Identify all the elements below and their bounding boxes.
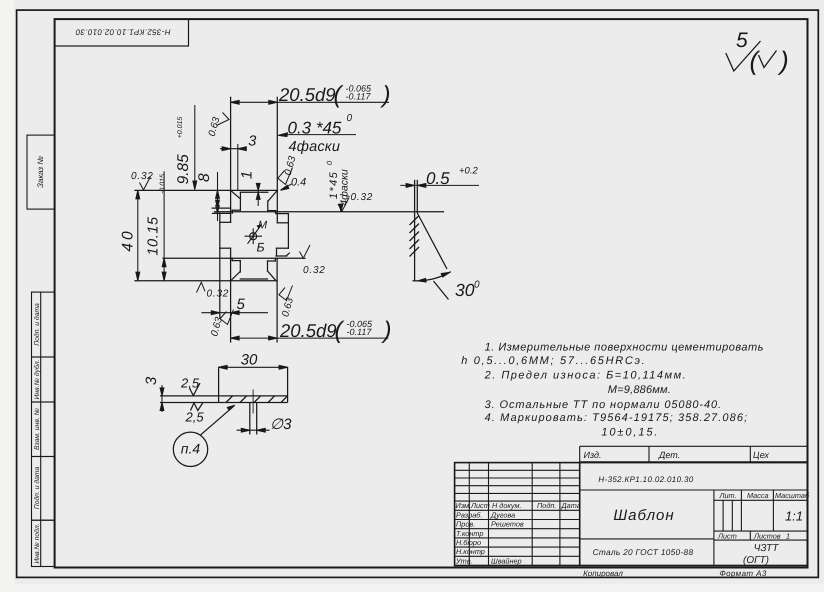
corner notch top-left <box>220 221 231 223</box>
bottom tongue right wall + ext <box>276 258 278 342</box>
svg-text:Копировал: Копировал <box>583 569 623 578</box>
svg-text:8: 8 <box>196 173 213 182</box>
svg-text:п.4: п.4 <box>181 441 201 457</box>
bottom tongue left wall + ext <box>230 258 232 342</box>
land edges <box>414 180 416 281</box>
flag 0.32 top-left <box>140 177 151 191</box>
bottom slants <box>231 272 240 280</box>
dim 3 <box>220 148 245 150</box>
svg-text:Лист: Лист <box>470 501 490 510</box>
svg-text:Н.бюро: Н.бюро <box>456 538 481 547</box>
svg-text:Н-352.КР1.10.02.010.30: Н-352.КР1.10.02.010.30 <box>75 28 170 37</box>
svg-text:4фаски: 4фаски <box>339 169 351 206</box>
svg-text:1: 1 <box>239 171 256 179</box>
svg-text:5: 5 <box>736 29 748 52</box>
flag 0.63 upper-left (rotated) <box>217 113 230 126</box>
svg-text:40: 40 <box>120 228 137 251</box>
section hatching <box>226 396 233 403</box>
svg-text:Решетов: Решетов <box>491 520 524 529</box>
svg-text:Подп. и дата: Подп. и дата <box>34 467 41 510</box>
ext line of dim 8 <box>212 207 230 209</box>
svg-text:Масса: Масса <box>747 491 769 500</box>
svg-text:-0.015: -0.015 <box>160 174 167 194</box>
svg-text:Подп.: Подп. <box>537 501 556 510</box>
svg-text:Пров.: Пров. <box>456 520 475 529</box>
angle arc <box>413 272 451 281</box>
right part <box>580 489 808 491</box>
top ledges <box>232 209 240 211</box>
svg-text:30: 30 <box>241 352 258 369</box>
svg-text:Н докум.: Н докум. <box>492 501 522 510</box>
right tongue wall + ext <box>276 97 278 223</box>
svg-text:Швайнер: Швайнер <box>491 556 522 565</box>
svg-text:+0.2: +0.2 <box>459 166 478 177</box>
svg-text:-0.117: -0.117 <box>346 91 372 101</box>
svg-text:Сталь 20 ГОСТ 1050-88: Сталь 20 ГОСТ 1050-88 <box>593 547 694 557</box>
leader 1x45 down arrow <box>340 206 342 212</box>
revision rows <box>455 469 580 471</box>
svg-text:Шаблон: Шаблон <box>613 507 674 524</box>
body top faces <box>213 212 231 214</box>
left margin: Заказ № box <box>27 135 55 209</box>
svg-text:0.3 *45: 0.3 *45 <box>288 119 342 138</box>
svg-text:20.5d9: 20.5d9 <box>279 320 337 341</box>
dim 5 <box>201 312 268 314</box>
svg-text:2,5: 2,5 <box>185 410 205 425</box>
surface line L2 <box>163 257 305 259</box>
svg-text:Инв.№ дубл.: Инв.№ дубл. <box>34 359 41 399</box>
svg-text:3. Остальные ТТ по нормали 050: 3. Остальные ТТ по нормали 05080-40. <box>485 399 722 411</box>
svg-text:Листов: Листов <box>753 532 781 541</box>
title block texts <box>584 450 770 460</box>
dim 30 <box>219 366 288 368</box>
hole axis <box>252 390 254 414</box>
svg-text:20.5d9: 20.5d9 <box>278 84 336 105</box>
30 deg leader <box>434 281 449 300</box>
bottom ledges <box>231 258 233 260</box>
svg-text:Дет.: Дет. <box>658 450 680 460</box>
svg-text:0.4: 0.4 <box>291 177 306 189</box>
svg-text:2. Предел износа: Б=10,114мм.: 2. Предел износа: Б=10,114мм. <box>484 370 688 382</box>
main title block outline <box>455 463 808 566</box>
svg-text:3: 3 <box>248 134 256 150</box>
roughness symbol top-right <box>726 41 777 71</box>
flag 0.32 on L1 <box>338 198 349 212</box>
part top face <box>135 189 278 191</box>
svg-text:10±0,15.: 10±0,15. <box>601 427 659 439</box>
svg-text:М=9,886мм.: М=9,886мм. <box>608 384 671 396</box>
svg-text:0: 0 <box>474 280 480 291</box>
corner notch bottom-left <box>220 247 231 249</box>
dim 0.5 <box>400 184 479 186</box>
surface line L1 (to detail view) <box>215 211 444 213</box>
flag 0.63 right wall (rotated) <box>278 168 293 185</box>
svg-text:+0.015: +0.015 <box>177 117 184 139</box>
flag 0.32 on L2 right <box>300 245 311 258</box>
svg-text:5: 5 <box>237 296 246 313</box>
top recess floor <box>240 191 267 193</box>
svg-text:30: 30 <box>455 280 475 300</box>
svg-text:1: 1 <box>786 532 790 541</box>
left tongue wall + ext <box>230 97 232 222</box>
svg-text:М: М <box>258 220 268 232</box>
svg-text:4. Маркировать: Т9564-19175; 3: 4. Маркировать: Т9564-19175; 358.27.086; <box>485 412 749 424</box>
hatching <box>410 216 420 226</box>
left part verticals <box>468 463 470 566</box>
svg-text:ЧЗТТ: ЧЗТТ <box>754 543 780 554</box>
svg-text:4фаски: 4фаски <box>289 139 341 155</box>
svg-text:0.32: 0.32 <box>207 289 230 300</box>
balloon <box>173 432 207 466</box>
flag 0.63 bottom wall ext <box>279 286 293 301</box>
dim 40 <box>137 190 139 280</box>
body left edge + ext down <box>219 213 221 317</box>
datum target М/Б in center <box>245 225 263 245</box>
dim 3 thickness <box>161 385 163 412</box>
roughness checks 2.5 <box>190 383 201 396</box>
dim d3 <box>237 429 270 431</box>
top inner verticals <box>239 192 241 210</box>
dim 10.15 <box>163 171 165 280</box>
bottom inner verticals <box>239 261 241 272</box>
30 deg slant face <box>417 213 447 269</box>
top-right slant <box>268 191 277 201</box>
top-left slant <box>231 191 240 199</box>
svg-text:Лит.: Лит. <box>719 491 737 500</box>
svg-text:Разраб.: Разраб. <box>456 510 482 519</box>
body right edge <box>287 214 289 249</box>
svg-text:∅3: ∅3 <box>270 416 292 433</box>
svg-text:3: 3 <box>143 376 160 385</box>
svg-text:10.15: 10.15 <box>146 216 162 256</box>
corner notch top-right <box>277 222 288 224</box>
hole ext <box>249 403 251 435</box>
svg-text:1. Измерительные поверхности ц: 1. Измерительные поверхности цементирова… <box>485 342 764 354</box>
svg-text:Подп. и дата: Подп. и дата <box>34 303 41 346</box>
corner notch bottom-right <box>277 247 289 249</box>
roughness flags around main view <box>140 113 350 325</box>
flag 0.63 bottom left-edge ext <box>220 310 234 325</box>
dim 1 <box>257 184 259 206</box>
svg-text:0.32: 0.32 <box>351 192 374 203</box>
svg-text:0.32: 0.32 <box>131 171 154 182</box>
dim 20.5d9 top <box>231 101 389 103</box>
bottom recess ceiling <box>240 278 267 280</box>
title block grid <box>455 446 808 565</box>
svg-text:1:1: 1:1 <box>785 509 803 524</box>
balloon leader arrow <box>227 405 235 410</box>
svg-text:Н.контр: Н.контр <box>456 547 485 556</box>
leader 0.4 <box>282 184 292 189</box>
svg-text:0.5: 0.5 <box>426 169 450 188</box>
Изд/Дет/Цех band <box>580 445 808 447</box>
svg-text:Б: Б <box>257 241 265 255</box>
svg-text:Н-352.КР1.10.02.010.30: Н-352.КР1.10.02.010.30 <box>598 475 693 484</box>
svg-text:Изд.: Изд. <box>584 450 602 460</box>
svg-text:Изм.: Изм. <box>456 501 472 510</box>
svg-text:Лист: Лист <box>717 532 737 541</box>
svg-text:9.85: 9.85 <box>175 154 192 185</box>
svg-text:-0.117: -0.117 <box>347 327 373 337</box>
svg-text:Инв.№ подл.: Инв.№ подл. <box>34 523 41 563</box>
svg-text:(ОГТ): (ОГТ) <box>743 555 769 566</box>
svg-text:Формат А3: Формат А3 <box>719 569 767 578</box>
left margin stamp boxes <box>32 292 55 566</box>
svg-text:Утв.: Утв. <box>455 556 473 565</box>
top-left rotated stamp box <box>55 19 189 46</box>
svg-text:Масштаб: Масштаб <box>775 491 810 500</box>
part bottom face <box>135 280 277 282</box>
svg-text:2,5: 2,5 <box>180 376 200 391</box>
dim 9.85 / 8 line <box>217 172 219 221</box>
svg-text:Дугова: Дугова <box>490 510 515 519</box>
svg-text:0: 0 <box>347 113 353 124</box>
mystery ext with down arrow <box>194 105 196 190</box>
svg-text:Дата: Дата <box>561 501 581 510</box>
plate top and bottom <box>160 395 288 397</box>
svg-text:Заказ №: Заказ № <box>36 156 45 188</box>
leader 0.3x45 <box>287 134 356 136</box>
svg-text:h 0,5...0,6ММ; 57...65HRCэ.: h 0,5...0,6ММ; 57...65HRCэ. <box>461 355 646 367</box>
signature rows <box>455 509 580 511</box>
svg-text:Взам. инв. №: Взам. инв. № <box>34 407 41 450</box>
dim 20.5d9 bottom <box>231 337 389 339</box>
svg-text:Цех: Цех <box>753 450 769 460</box>
dim 30 ext <box>218 367 220 396</box>
technical notes <box>461 342 764 439</box>
svg-text:0.32: 0.32 <box>303 265 326 276</box>
svg-text:Т.контр: Т.контр <box>456 529 483 538</box>
flag 0.32 bottom-left (under line) <box>197 282 206 292</box>
